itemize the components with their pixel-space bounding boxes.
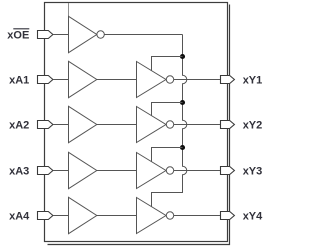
pin xY2 (output pad): [221, 121, 235, 129]
svg-text:xA1: xA1: [9, 75, 29, 87]
svg-text:xY3: xY3: [243, 166, 263, 178]
svg-text:xOE: xOE: [7, 30, 29, 42]
wire: stage 1 to stage 2, channel 3: [97, 170, 137, 172]
svg-text:xY1: xY1: [243, 75, 263, 87]
svg-text:xY4: xY4: [243, 211, 263, 223]
wire: xOE pin to inverter input: [53, 34, 69, 36]
junction dot: OE to channel 2 enable: [180, 100, 185, 105]
wire: xA1 pin to buffer input: [53, 79, 69, 81]
wire: OE distribution vertical with hops over channel outputs: [152, 35, 187, 207]
wire: OE net horizontal from bubble to distribution column: [104, 34, 182, 36]
pin xA4 (input pad): [38, 212, 53, 220]
stage 2 output bubble, channel 1: [166, 76, 173, 83]
tri-state inverting buffer stage 2, channel 3: [137, 153, 167, 189]
inverter U1 output bubble: [97, 31, 104, 38]
buffer stage 1, channel 1: [69, 61, 97, 97]
stage 2 output bubble, channel 4: [166, 212, 173, 219]
pin xY1 (output pad): [221, 76, 235, 84]
svg-text:xA4: xA4: [9, 211, 30, 223]
buffer stage 1, channel 2: [69, 106, 97, 142]
stage 2 output bubble, channel 3: [166, 167, 173, 174]
box shadow right and bottom: [48, 5, 230, 245]
wire: stage 1 to stage 2, channel 4: [97, 215, 137, 217]
tri-state inverting buffer stage 2, channel 1: [137, 62, 167, 98]
wire: channel 4 output to pin: [174, 215, 221, 217]
svg-text:xY2: xY2: [243, 120, 263, 132]
IC body outline box: [45, 3, 228, 242]
svg-text:xA3: xA3: [9, 166, 29, 178]
wire: xA4 pin to buffer input: [53, 215, 69, 217]
pin xY3 (output pad): [221, 167, 235, 175]
stage 2 output bubble, channel 2: [166, 121, 173, 128]
wire: channel 1 output to pin: [174, 79, 221, 81]
wire: channel 2 output to pin: [174, 124, 221, 126]
wire: stub from top border to inverter apex: [68, 3, 70, 16]
wire: xA2 pin to buffer input: [53, 124, 69, 126]
pin xA1 (input pad): [38, 76, 53, 84]
pin xOE (input pad): [38, 31, 53, 39]
tri-state inverting buffer stage 2, channel 4: [137, 198, 167, 234]
wire: xA3 pin to buffer input: [53, 170, 69, 172]
wire: stage 1 to stage 2, channel 1: [97, 79, 137, 81]
wire: channel 2 enable tap: [152, 103, 183, 116]
pin xY4 (output pad): [221, 212, 235, 220]
wire: channel 3 enable tap: [152, 148, 183, 162]
inverter U1 (OE inverter): [69, 16, 97, 52]
tri-state inverting buffer stage 2, channel 2: [137, 107, 167, 143]
buffer stage 1, channel 4: [69, 197, 97, 233]
wire: channel 1 enable tap: [152, 57, 183, 71]
buffer stage 1, channel 3: [69, 152, 97, 188]
junction dot: OE to channel 3 enable: [180, 145, 185, 150]
pin xA2 (input pad): [38, 121, 53, 129]
svg-text:xA2: xA2: [9, 120, 29, 132]
wire: channel 3 output to pin: [174, 170, 221, 172]
junction dot: OE to channel 1 enable: [180, 54, 185, 59]
wire: stage 1 to stage 2, channel 2: [97, 124, 137, 126]
overline over OE: [13, 28, 29, 30]
pin xA3 (input pad): [38, 167, 53, 175]
